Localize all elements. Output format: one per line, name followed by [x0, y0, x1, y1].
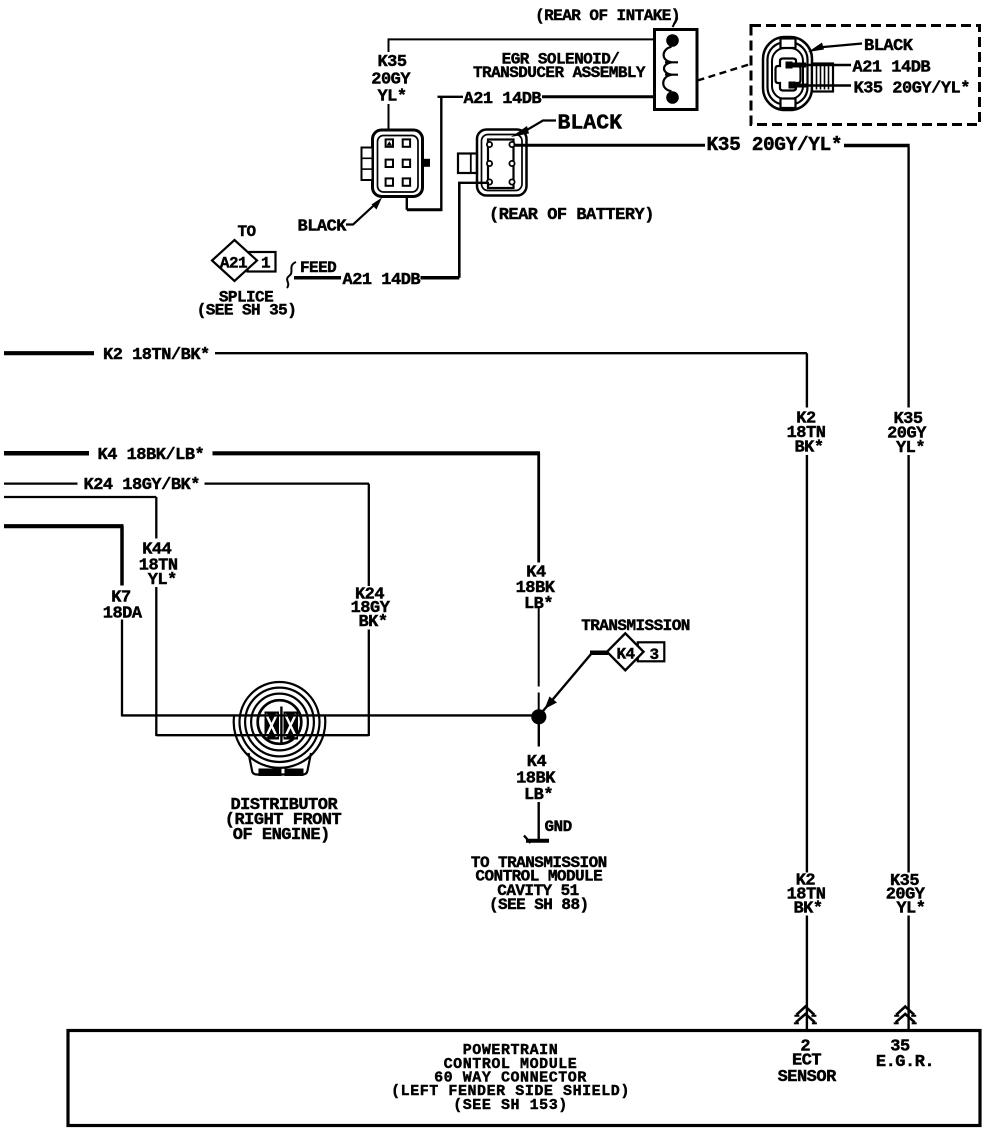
svg-text:YL*: YL*: [896, 439, 925, 458]
svg-text:BLACK: BLACK: [298, 218, 348, 237]
svg-text:TRANSMISSION: TRANSMISSION: [581, 617, 690, 635]
svg-text:(SEE SH 88): (SEE SH 88): [489, 896, 589, 914]
svg-text:BK*: BK*: [793, 900, 822, 919]
svg-text:18DA: 18DA: [103, 605, 143, 624]
svg-text:FEED: FEED: [300, 259, 336, 277]
svg-text:BLACK: BLACK: [558, 112, 623, 136]
svg-text:A21: A21: [220, 255, 247, 273]
svg-text:BK*: BK*: [358, 613, 387, 632]
svg-text:(SEE SH 35): (SEE SH 35): [197, 302, 297, 320]
svg-text:SENSOR: SENSOR: [778, 1068, 838, 1087]
svg-text:A21 14DB: A21 14DB: [464, 90, 542, 109]
svg-text:OF ENGINE): OF ENGINE): [233, 826, 330, 845]
svg-text:1: 1: [261, 255, 270, 273]
svg-text:(REAR OF INTAKE): (REAR OF INTAKE): [535, 7, 680, 25]
svg-text:TRANSDUCER ASSEMBLY: TRANSDUCER ASSEMBLY: [473, 64, 646, 82]
svg-text:YL*: YL*: [377, 88, 406, 107]
svg-text:E.G.R.: E.G.R.: [876, 1053, 934, 1072]
svg-text:A21 14DB: A21 14DB: [853, 59, 931, 78]
svg-text:LB*: LB*: [524, 786, 553, 805]
svg-text:K35: K35: [377, 53, 406, 72]
svg-text:K35 20GY/YL*: K35 20GY/YL*: [854, 80, 970, 99]
svg-text:K35 20GY/YL*: K35 20GY/YL*: [707, 134, 843, 156]
svg-text:A21 14DB: A21 14DB: [343, 271, 421, 290]
svg-text:GND: GND: [545, 818, 572, 836]
svg-text:K24 18GY/BK*: K24 18GY/BK*: [84, 476, 200, 495]
svg-text:BK*: BK*: [794, 439, 823, 458]
svg-text:K2 18TN/BK*: K2 18TN/BK*: [103, 346, 210, 365]
svg-text:(SEE SH 153): (SEE SH 153): [453, 1097, 568, 1114]
svg-text:TO: TO: [237, 223, 256, 241]
svg-text:BLACK: BLACK: [864, 37, 914, 56]
svg-text:YL*: YL*: [896, 900, 925, 919]
svg-text:(REAR OF BATTERY): (REAR OF BATTERY): [489, 206, 654, 225]
svg-text:YL*: YL*: [148, 571, 177, 590]
svg-text:3: 3: [649, 646, 658, 664]
svg-text:K4: K4: [616, 645, 635, 663]
svg-text:K4 18BK/LB*: K4 18BK/LB*: [98, 446, 205, 465]
